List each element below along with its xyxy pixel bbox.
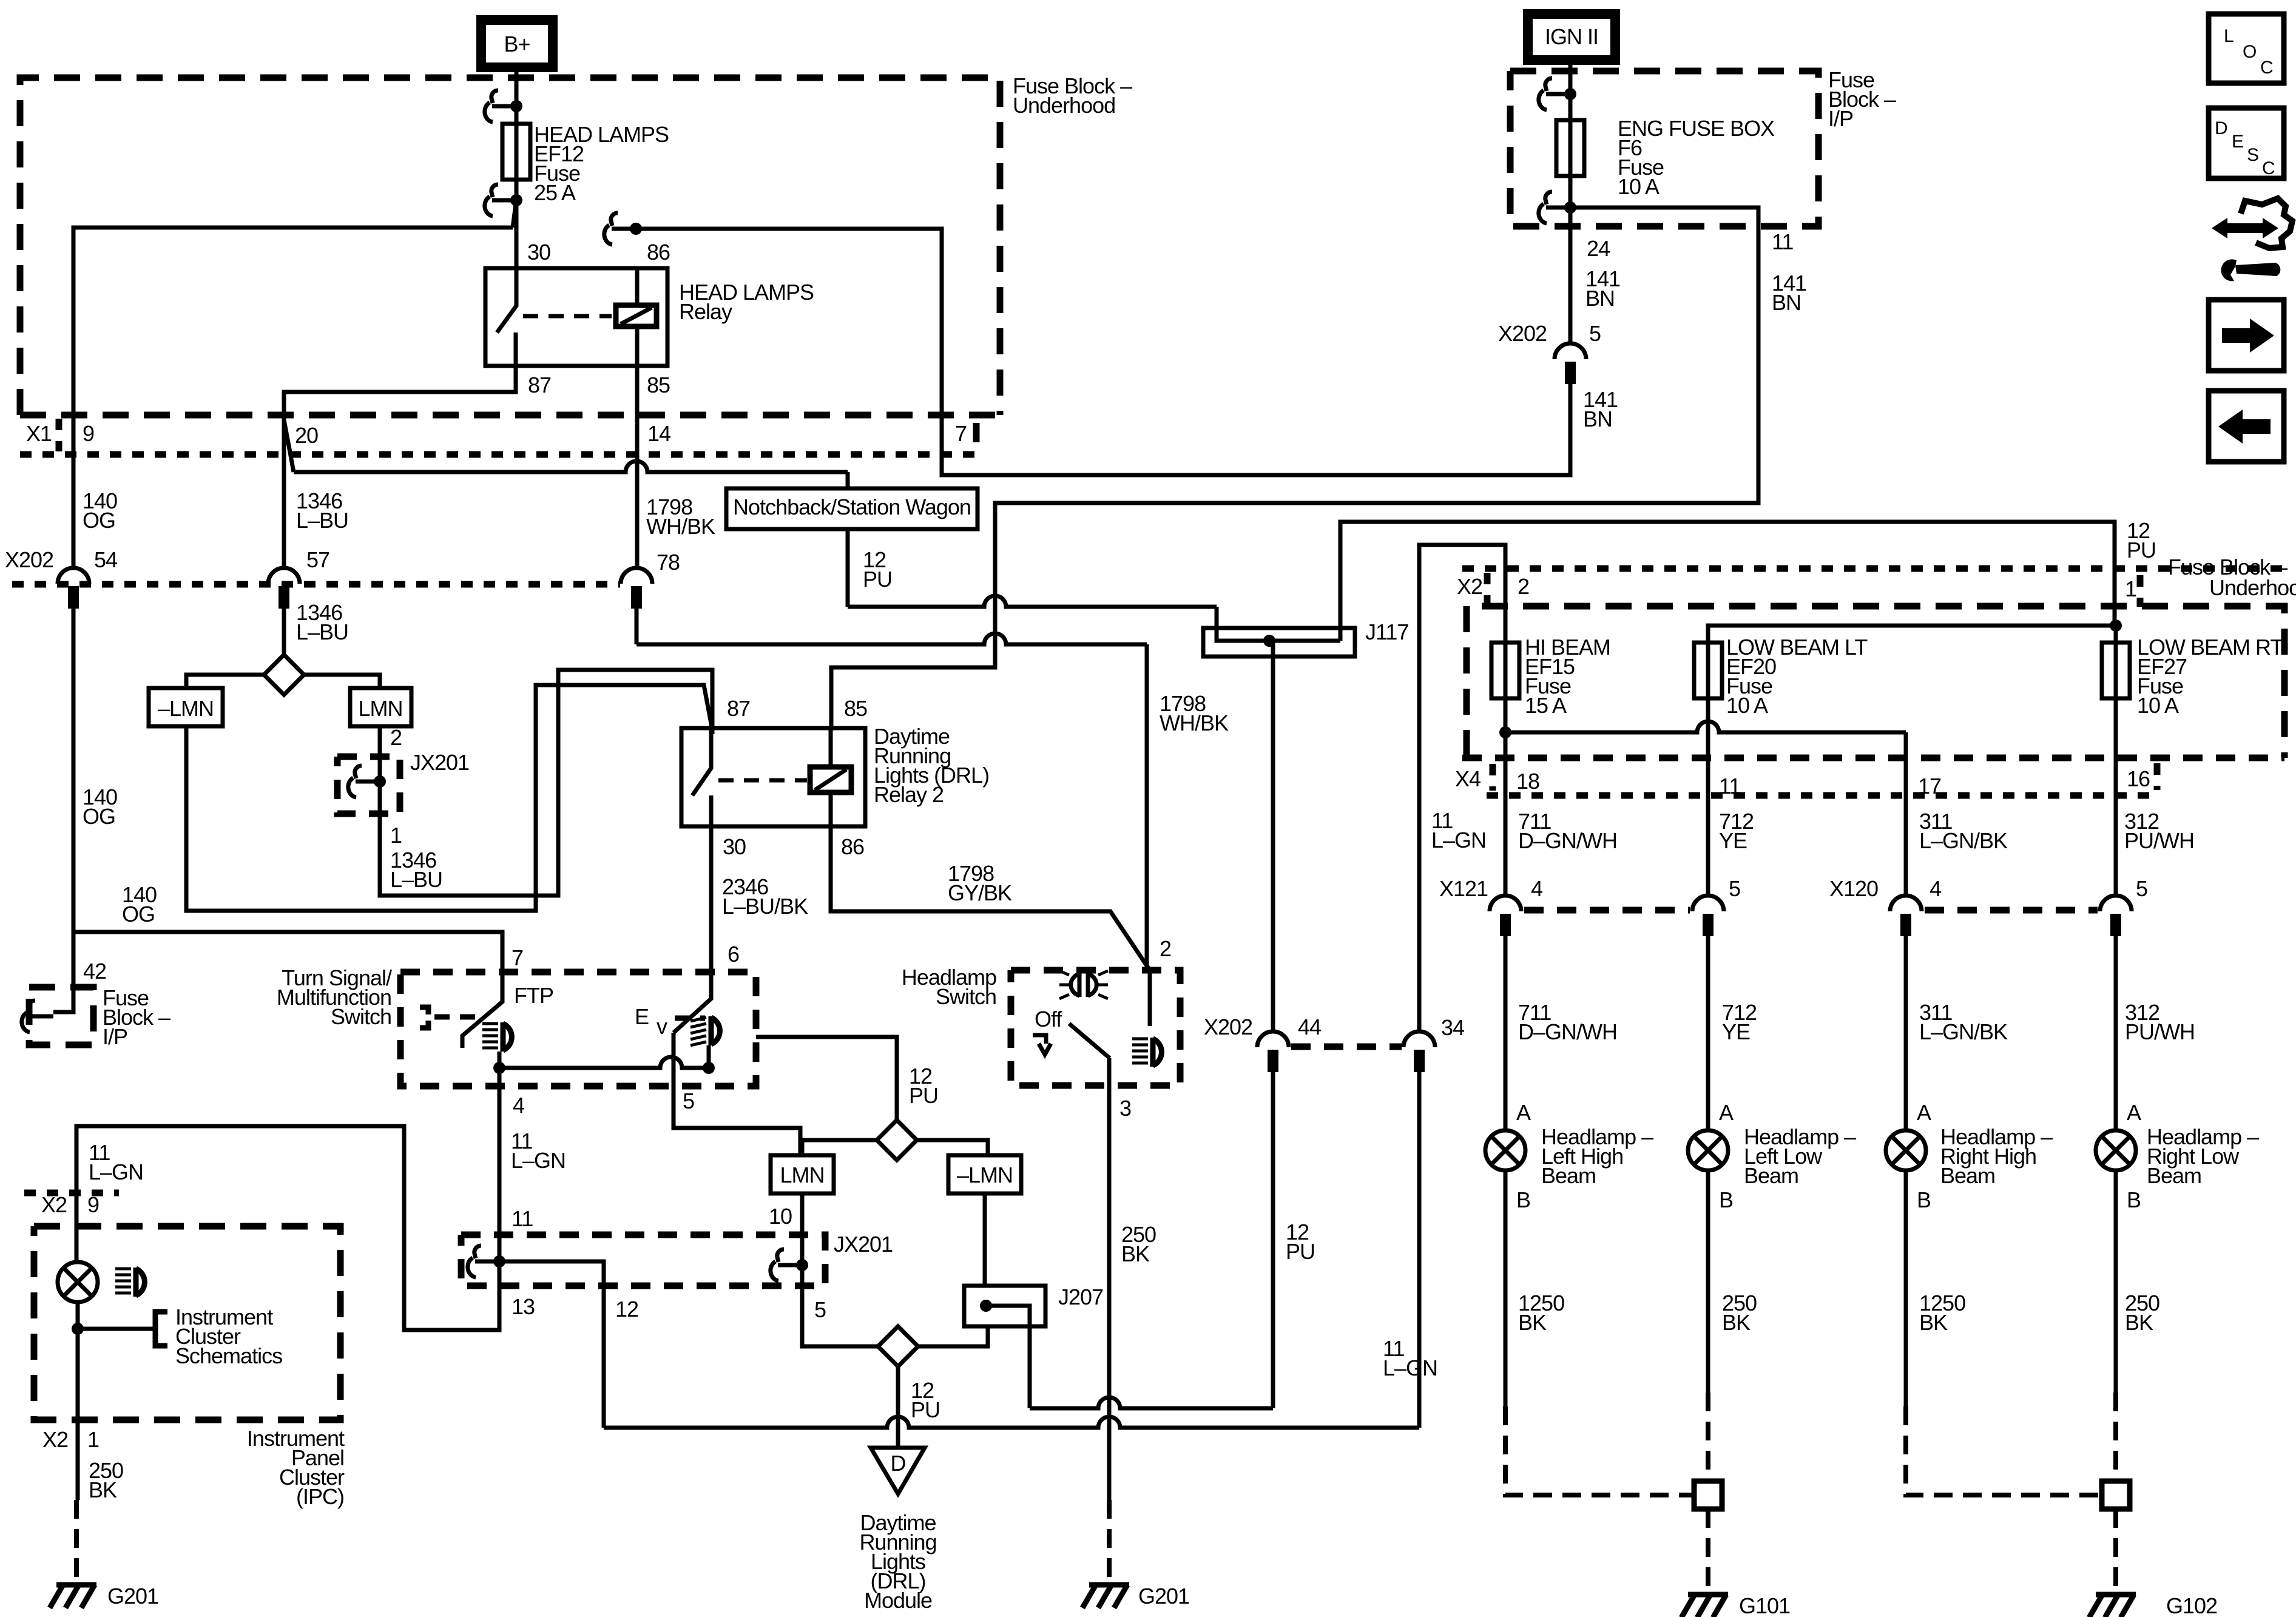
X4 connector dotted row: [1487, 792, 2153, 799]
svg-text:FuseBlock –I/P: FuseBlock –I/P: [103, 985, 171, 1049]
svg-text:G201: G201: [107, 1584, 158, 1609]
dashed splice to ground G102: [2113, 1509, 2118, 1591]
svg-text:4: 4: [513, 1093, 524, 1118]
svg-text:11L–GN: 11L–GN: [89, 1140, 143, 1184]
connector X202-78: [621, 568, 652, 584]
svg-text:250BK: 250BK: [1722, 1291, 1757, 1335]
svg-text:Underhood: Underhood: [2209, 575, 2296, 600]
svg-text:InstrumentPanelCluster(IPC): InstrumentPanelCluster(IPC): [247, 1426, 345, 1509]
svg-text:312PU/WH: 312PU/WH: [2124, 809, 2194, 853]
svg-text:1: 1: [87, 1427, 99, 1452]
svg-text:12: 12: [615, 1297, 638, 1322]
headlamp switch dashed box: [1011, 970, 1180, 1085]
svg-text:Headlamp –Left HighBeam: Headlamp –Left HighBeam: [1541, 1124, 1653, 1188]
fuse F6 ENG FUSE BOX 10A: [1556, 120, 1584, 176]
wire J117 right entry to 12 PU feed: [1340, 522, 2115, 641]
X2 connector dotted row (right fuse block): [1462, 565, 2289, 572]
wire relay 86 to X1-7 to 141 BN: [636, 229, 1570, 475]
connector X202-54: [58, 568, 89, 584]
ground G101: [1688, 1592, 1728, 1598]
svg-text:IGN II: IGN II: [1545, 24, 1598, 49]
svg-text:5: 5: [2136, 876, 2147, 901]
svg-text:140OG: 140OG: [83, 488, 117, 533]
svg-text:D: D: [891, 1451, 906, 1476]
relay HEAD LAMPS box: [485, 268, 667, 366]
X1 connector right tick: [973, 423, 980, 450]
svg-text:1250BK: 1250BK: [1919, 1291, 1965, 1335]
svg-text:1346L–BU: 1346L–BU: [390, 848, 442, 892]
svg-text:Headlamp –Right LowBeam: Headlamp –Right LowBeam: [2147, 1124, 2259, 1188]
svg-text:B: B: [1917, 1187, 1931, 1212]
svg-text:2: 2: [1518, 574, 1529, 599]
-LMN box (lower): [948, 1155, 1021, 1193]
relay coil 85 lead: [635, 326, 640, 366]
svg-text:J117: J117: [1365, 619, 1408, 644]
wire left low beam ground lead: [1706, 1170, 1710, 1393]
splice diamond A 12 PU: [877, 1120, 917, 1160]
relay2 linkage dashes: [718, 778, 807, 783]
junction dot below EF15: [1499, 726, 1511, 738]
svg-text:85: 85: [844, 696, 867, 721]
X1 connector left tick: [56, 419, 62, 451]
wire -LMN loop to relay2 87: [186, 685, 712, 911]
connector terminal at relay 86 feed: [604, 213, 636, 245]
wire 312 PU/WH to headlamp: [2114, 936, 2118, 1130]
relay2 contact blade: [692, 728, 711, 795]
svg-text:42: 42: [83, 959, 106, 984]
wire X202-34 down to ground bus: [1417, 1070, 1422, 1428]
fuse EF12 HEAD LAMPS 25A: [502, 124, 530, 180]
FTP linkage bracket: [420, 1007, 428, 1028]
connector terminal below B+: [485, 90, 516, 122]
J117 bottom exit: [1271, 641, 1275, 657]
relay2 coil: [810, 767, 851, 792]
dimmer linkage dashes: [675, 1016, 705, 1021]
wire IGN II down to fuse F6: [1568, 60, 1573, 343]
splice pack J207: [964, 1286, 1045, 1326]
junction dot 12 PU at EF27: [2110, 619, 2122, 632]
svg-text:A: A: [1917, 1100, 1931, 1125]
svg-text:1: 1: [2125, 576, 2136, 601]
X4 tick left: [1490, 764, 1496, 791]
ground bus 12 PU / 11 L-GN: [604, 1417, 1419, 1428]
svg-text:LOW BEAM LTEF20Fuse10 A: LOW BEAM LTEF20Fuse10 A: [1726, 635, 1868, 718]
svg-text:X1: X1: [26, 421, 52, 446]
wire J207 to X202-44 drop: [1030, 1397, 1273, 1408]
wire LMN lower through JX201-10/5: [802, 1193, 878, 1346]
svg-text:Fuse Block –Underhood: Fuse Block –Underhood: [1013, 73, 1132, 118]
diamond A right arm to -LMN lower: [916, 1140, 988, 1155]
junction dot J207: [980, 1300, 992, 1312]
svg-text:–LMN: –LMN: [158, 696, 214, 721]
svg-text:1798WH/BK: 1798WH/BK: [1160, 691, 1229, 735]
svg-text:1346L–BU: 1346L–BU: [296, 488, 348, 533]
connector X202-57: [268, 568, 300, 584]
wire 1798 WH/BK drop to switch pin 2: [1145, 644, 1149, 970]
ground splice square left: [1694, 1481, 1722, 1509]
diagnostic hand-wrench icon: [2212, 218, 2278, 238]
wire X202-34 up (11 L-GN): [1419, 545, 1505, 1031]
connector JX201-10: [771, 1249, 802, 1281]
svg-text:711D–GN/WH: 711D–GN/WH: [1518, 1000, 1617, 1044]
svg-text:11L–GN: 11L–GN: [1383, 1336, 1437, 1380]
svg-text:G101: G101: [1739, 1593, 1790, 1617]
svg-text:Turn Signal/MultifunctionSwitc: Turn Signal/MultifunctionSwitch: [277, 965, 392, 1029]
connector in JX201 upper: [348, 766, 380, 797]
notchback label box: [726, 488, 977, 529]
FTP low-beam lamp icon: [482, 1022, 498, 1025]
ground G201 (IPC): [56, 1582, 96, 1588]
wire 711 D–GN/WH to headlamp: [1504, 936, 1508, 1130]
svg-text:141BN: 141BN: [1772, 271, 1806, 315]
wire EF27 to X4-16: [2114, 626, 2118, 896]
svg-text:11: 11: [1719, 774, 1740, 798]
svg-text:44: 44: [1298, 1014, 1321, 1039]
wire notchback down: [846, 529, 850, 607]
svg-text:30: 30: [527, 240, 550, 265]
wire 1798 WH/BK spur to notchback box: [294, 461, 848, 472]
wire EF15 branch to right high beam: [1505, 721, 1906, 732]
svg-text:1346L–BU: 1346L–BU: [296, 600, 348, 644]
dashed 1250 BK right high to splice square: [1906, 1406, 2099, 1495]
svg-text:JX201: JX201: [410, 750, 469, 775]
X202 connector dotted row (left): [12, 581, 620, 588]
fuse block I/P dashed box (top right): [1510, 71, 1818, 226]
svg-text:6: 6: [728, 942, 739, 967]
svg-text:12PU: 12PU: [909, 1064, 938, 1108]
X120 dashed link: [1925, 907, 2098, 914]
svg-text:DaytimeRunningLights (DRL)Rela: DaytimeRunningLights (DRL)Relay 2: [874, 724, 989, 807]
svg-text:11: 11: [1772, 229, 1793, 254]
ground G201 (switch): [1089, 1582, 1129, 1588]
connector X202-34: [1403, 1031, 1435, 1047]
svg-text:X2: X2: [41, 1192, 67, 1217]
svg-text:Off: Off: [1035, 1007, 1062, 1031]
svg-text:InstrumentClusterSchematics: InstrumentClusterSchematics: [175, 1305, 282, 1368]
svg-text:A: A: [1719, 1100, 1734, 1125]
wire diamond B to DRL module: [896, 1366, 900, 1448]
svg-text:JX201: JX201: [834, 1232, 893, 1257]
splice diamond 1346 L-BU: [264, 655, 304, 695]
splice diamond B 12 PU: [878, 1326, 918, 1366]
wire X202-57 to splice diamond: [282, 609, 286, 655]
svg-text:X202: X202: [5, 547, 53, 572]
wire left high beam ground lead: [1504, 1170, 1508, 1406]
X1 connector bottom dashed line: [20, 412, 1000, 419]
svg-text:11L–GN: 11L–GN: [1431, 808, 1486, 852]
relay HEAD LAMPS coil: [616, 305, 657, 326]
next-page arrow icon box: [2209, 300, 2284, 371]
svg-text:16: 16: [2127, 766, 2150, 791]
FTP lamp to junction: [498, 1052, 502, 1068]
wire 140 OG to I/P fuse block: [53, 609, 73, 1012]
connector X120-5: [2100, 896, 2132, 911]
connector JX201-11: [468, 1246, 499, 1277]
svg-text:12PU: 12PU: [911, 1378, 940, 1422]
wire J117 left entry drop: [1215, 607, 1219, 637]
LOC icon box: [2209, 14, 2284, 83]
wire IPC bulb to ground: [76, 1302, 80, 1500]
svg-text:B+: B+: [504, 32, 530, 56]
junction dot dimmer output: [703, 1062, 715, 1074]
svg-text:X202: X202: [1498, 321, 1547, 346]
wire 1798 WH/BK from arc: [635, 609, 639, 644]
DRL module triangle: [871, 1448, 925, 1494]
svg-text:E: E: [635, 1004, 649, 1029]
X121 dashed link: [1524, 907, 1690, 914]
diamond right arm to LMN: [302, 675, 380, 688]
svg-text:3: 3: [1119, 1096, 1131, 1121]
cluster schematics bracket: [155, 1312, 167, 1346]
svg-text:1250BK: 1250BK: [1518, 1291, 1564, 1335]
wire 12 PU to EF20: [1708, 626, 2116, 643]
headlamp switch lamp icon: [1132, 1038, 1148, 1041]
wire relay2 86 to switch pin 2 diagonal: [831, 826, 1150, 970]
svg-text:24: 24: [1587, 236, 1610, 261]
JX201 junction block dashed box (upper): [337, 757, 400, 814]
wire FTP pin 4 through JX201-11/13 to IPC: [76, 1068, 499, 1330]
connector X120-4: [1890, 896, 1922, 911]
svg-text:712YE: 712YE: [1722, 1000, 1757, 1044]
svg-text:141BN: 141BN: [1583, 387, 1618, 431]
junction dot IPC: [72, 1323, 84, 1335]
svg-text:7: 7: [512, 945, 523, 970]
JX201 junction block dashed box (lower): [461, 1235, 825, 1286]
DESC icon box: [2209, 108, 2284, 178]
wire J117 to X202-44: [1271, 657, 1275, 1031]
svg-text:G102: G102: [2166, 1593, 2217, 1617]
svg-text:J207: J207: [1058, 1284, 1103, 1309]
svg-text:Notchback/Station Wagon: Notchback/Station Wagon: [733, 495, 971, 519]
svg-text:13: 13: [512, 1294, 535, 1319]
wire right high beam ground lead: [1904, 1170, 1908, 1406]
inline connector X202-5: [1555, 343, 1586, 359]
relay contact 87 stub: [514, 333, 518, 366]
svg-text:2: 2: [390, 725, 402, 750]
svg-text:1: 1: [390, 823, 402, 848]
turn signal multifunction switch dashed box: [400, 972, 756, 1086]
svg-text:711D–GN/WH: 711D–GN/WH: [1518, 809, 1617, 853]
svg-text:57: 57: [306, 547, 329, 572]
relay contact 30 blade: [497, 268, 516, 333]
svg-text:HeadlampSwitch: HeadlampSwitch: [902, 965, 996, 1009]
IPC lamp icon: [115, 1268, 131, 1271]
dashed 250 BK right low to splice square: [2113, 1393, 2118, 1481]
svg-text:2346L–BU/BK: 2346L–BU/BK: [722, 874, 808, 919]
wire FTP output to dimmer output: [499, 1057, 709, 1068]
wire EF15 to X4-18: [1504, 640, 1508, 896]
svg-text:Headlamp –Right HighBeam: Headlamp –Right HighBeam: [1940, 1124, 2053, 1188]
svg-text:85: 85: [647, 373, 670, 397]
ground G102: [2096, 1592, 2136, 1598]
X4 tick right: [2154, 763, 2161, 790]
connector terminal below IGN II: [1539, 78, 1570, 110]
X2-9 connector dotted row (IPC): [24, 1190, 119, 1197]
dashed ground wire IPC: [74, 1500, 79, 1582]
svg-text:D: D: [2215, 118, 2227, 138]
fuse EF20 LOW BEAM LT 10A: [1694, 643, 1722, 698]
svg-text:B: B: [1516, 1187, 1530, 1212]
svg-text:17: 17: [1918, 774, 1941, 798]
wire 311 L–GN/BK to headlamp: [1904, 936, 1908, 1130]
svg-text:A: A: [2127, 1100, 2141, 1125]
svg-text:9: 9: [87, 1192, 99, 1217]
X2 tick right: [2137, 575, 2144, 607]
svg-text:FuseBlock –I/P: FuseBlock –I/P: [1828, 67, 1896, 131]
svg-text:9: 9: [83, 421, 94, 446]
svg-text:1798WH/BK: 1798WH/BK: [646, 495, 715, 539]
relay DRL Relay 2 box: [681, 728, 865, 826]
svg-text:Headlamp –Left LowBeam: Headlamp –Left LowBeam: [1744, 1124, 1856, 1188]
fuse block I/P small dashed box (bottom left): [29, 987, 93, 1045]
wire relay 87 to X1-20: [284, 366, 516, 568]
jog fuse output: [513, 200, 516, 228]
svg-text:87: 87: [727, 696, 750, 721]
relay2 coil 86 lead: [829, 792, 833, 826]
B+ power symbol box: [481, 20, 553, 67]
svg-text:5: 5: [1729, 876, 1740, 901]
relay2 coil 85 lead: [829, 728, 833, 767]
off position icon: [1033, 1035, 1051, 1055]
dimmer lamp lead: [707, 1045, 711, 1068]
svg-text:DaytimeRunningLights(DRL)Modul: DaytimeRunningLights(DRL)Module: [859, 1510, 936, 1613]
connector X121-4: [1490, 896, 1521, 911]
spur X1-20 diagonal: [284, 420, 294, 472]
svg-text:v: v: [657, 1014, 667, 1039]
svg-text:78: 78: [657, 550, 680, 575]
wire right low beam ground lead: [2114, 1170, 2118, 1393]
svg-text:L: L: [2224, 26, 2234, 46]
svg-text:312PU/WH: 312PU/WH: [2125, 1000, 2195, 1044]
headlamp bulb Left High Beam: [1485, 1130, 1525, 1170]
svg-text:X202: X202: [1204, 1014, 1252, 1039]
svg-text:54: 54: [94, 547, 117, 572]
svg-text:18: 18: [1516, 769, 1539, 794]
svg-text:O: O: [2243, 42, 2256, 62]
svg-text:4: 4: [1930, 876, 1941, 901]
svg-text:HI BEAMEF15Fuse15 A: HI BEAMEF15Fuse15 A: [1525, 635, 1610, 718]
wire 12 PU to J117 left entry: [848, 596, 1217, 607]
connector terminal below fuse F6: [1539, 192, 1570, 223]
svg-text:311L–GN/BK: 311L–GN/BK: [1919, 1000, 2008, 1044]
svg-text:250BK: 250BK: [2125, 1291, 2159, 1335]
X4 connector dashed row: [1462, 755, 2284, 761]
svg-text:20: 20: [295, 423, 318, 448]
IPC dashed box: [34, 1226, 340, 1420]
svg-text:712YE: 712YE: [1719, 809, 1754, 853]
wire 12 PU from switch edge to diamond A: [756, 1037, 897, 1120]
svg-text:C: C: [2260, 58, 2273, 78]
wire B+ to fuse EF12 and relay 30: [515, 67, 519, 268]
prev-page arrow: [2218, 410, 2271, 444]
svg-text:30: 30: [723, 834, 746, 859]
svg-text:86: 86: [841, 834, 864, 859]
svg-text:X4: X4: [1455, 766, 1481, 791]
splice pack J117: [1203, 628, 1355, 657]
X2 tick left: [1484, 573, 1491, 604]
wire branch down X4-17: [1904, 732, 1908, 896]
svg-text:12PU: 12PU: [1286, 1220, 1315, 1264]
diamond A left arm to LMN lower: [802, 1140, 877, 1155]
svg-text:FTP: FTP: [514, 983, 553, 1008]
connector terminal below fuse EF12: [485, 184, 516, 216]
dashed 250 BK left low to splice square: [1706, 1393, 1710, 1481]
svg-text:34: 34: [1441, 1015, 1464, 1040]
svg-text:12PU: 12PU: [863, 547, 892, 592]
svg-text:14: 14: [647, 421, 670, 446]
wire relay 85 to X202-78: [635, 366, 640, 568]
svg-text:A: A: [1516, 1100, 1531, 1125]
diamond B right arm to J207: [918, 1326, 988, 1346]
svg-text:10: 10: [769, 1204, 792, 1229]
svg-text:5: 5: [814, 1297, 826, 1322]
fuse EF15 HI BEAM 15A: [1491, 643, 1519, 698]
svg-text:11: 11: [512, 1206, 533, 1231]
svg-text:86: 86: [647, 240, 670, 265]
svg-text:140OG: 140OG: [122, 882, 157, 927]
wire relay2 30 to dimmer contact 6: [674, 826, 711, 1033]
LMN box (lower): [771, 1155, 834, 1193]
connector X202-44: [1257, 1031, 1289, 1047]
headlamp switch pin 2 contact: [1148, 970, 1152, 1026]
J117 internal bus: [1217, 637, 1340, 641]
svg-text:E: E: [2232, 132, 2243, 152]
svg-text:12PU: 12PU: [2127, 518, 2156, 562]
svg-text:4: 4: [1531, 876, 1542, 901]
next-page arrow: [2222, 319, 2274, 353]
dashed splice to ground G101: [1706, 1509, 1710, 1591]
svg-text:141BN: 141BN: [1585, 266, 1620, 311]
prev-page arrow icon box: [2209, 391, 2284, 462]
relay coil 86 lead: [635, 268, 640, 305]
svg-text:5: 5: [683, 1089, 694, 1113]
relay2 contact 30 stub: [709, 795, 714, 826]
fuse EF27 LOW BEAM RT 10A: [2102, 643, 2130, 698]
svg-text:87: 87: [528, 373, 551, 397]
wire dimmer stub to pin 5 path: [674, 1033, 800, 1155]
diamond left arm to -LMN: [186, 675, 265, 688]
connector terminal in I/P fuse block: [22, 1001, 53, 1032]
svg-text:LOW BEAM RTEF27Fuse10 A: LOW BEAM RTEF27Fuse10 A: [2137, 635, 2283, 718]
ground splice square right: [2102, 1481, 2130, 1509]
wire -LMN lower to J207: [983, 1193, 987, 1286]
svg-text:ENG FUSE BOXF6Fuse10 A: ENG FUSE BOXF6Fuse10 A: [1618, 116, 1775, 199]
wire IPC to cluster schematics bracket: [78, 1327, 154, 1331]
X202 44-34 dashed row: [1291, 1044, 1402, 1050]
-LMN box (upper): [149, 688, 223, 726]
svg-text:LMN: LMN: [358, 696, 402, 721]
FTP contact blade: [462, 970, 502, 1048]
wire into notchback box: [846, 472, 850, 488]
wire JX201-13 branch to ground bus: [499, 1261, 604, 1428]
X1 connector dotted line: [20, 451, 976, 458]
relay linkage dashes: [523, 314, 612, 319]
svg-text:X120: X120: [1829, 876, 1878, 901]
svg-text:7: 7: [955, 421, 967, 446]
bus 140 OG to switch pin 7: [75, 932, 502, 1002]
svg-text:5: 5: [1589, 321, 1601, 346]
IPC headlamp indicator bulb: [58, 1262, 98, 1302]
park lamp icon: [1071, 973, 1097, 997]
fuse block underhood dashed box (left): [20, 78, 1000, 415]
svg-text:S: S: [2247, 145, 2258, 165]
svg-text:HEAD LAMPSEF12Fuse25 A: HEAD LAMPSEF12Fuse25 A: [534, 122, 669, 205]
headlamp bulb Right Low Beam: [2096, 1130, 2136, 1170]
svg-text:140OG: 140OG: [83, 785, 117, 829]
wire 1798 WH/BK to headlamp switch 2: [636, 633, 1147, 644]
wire EF20 to X4-11: [1706, 640, 1710, 896]
wire F6 branch to X1-11 drop: [831, 208, 1758, 731]
